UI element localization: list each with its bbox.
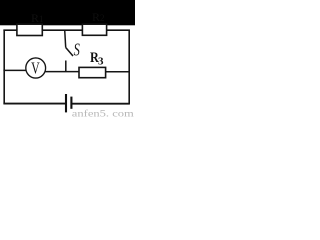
wire: left side of loop [3, 30, 5, 104]
resistor R3 (box on middle branch) [79, 67, 106, 77]
voltmeter V (circle) [26, 58, 46, 78]
switch S: blade (open) [66, 48, 73, 57]
resistor R2 (top right box) [82, 24, 106, 35]
svg-text:anfen5. com: anfen5. com [72, 108, 134, 119]
svg-text:R2: R2 [92, 10, 105, 24]
wire: top side of loop [3, 29, 129, 31]
wire: right side of loop [128, 30, 130, 105]
switch S: lower contact [65, 61, 67, 72]
wire: middle branch left (voltmeter branch) [3, 69, 30, 71]
svg-text:R1: R1 [31, 11, 44, 25]
resistor R1 (top left box) [17, 24, 42, 35]
wire: bottom left segment to battery [3, 103, 66, 105]
wire: middle branch right of voltmeter [42, 71, 80, 73]
wire: middle branch right of R3 [105, 71, 130, 73]
wire: bottom right segment from battery [71, 103, 129, 105]
battery: left plate (long) [65, 94, 67, 112]
switch S: upper lead [65, 30, 66, 48]
background [0, 0, 135, 119]
battery: right plate (short) [70, 97, 72, 109]
top black bar [0, 0, 135, 25]
svg-text:3: 3 [98, 55, 104, 67]
svg-text:S: S [74, 40, 80, 60]
svg-text:V: V [31, 59, 40, 78]
